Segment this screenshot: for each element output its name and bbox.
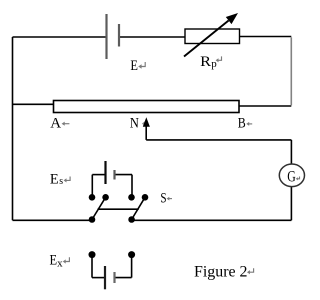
svg-text:A: A	[50, 115, 61, 131]
svg-text:B: B	[238, 116, 246, 132]
svg-text:s: s	[59, 175, 63, 187]
svg-text:S: S	[160, 191, 166, 207]
svg-text:x: x	[57, 257, 63, 269]
svg-text:Figure 2: Figure 2	[194, 264, 248, 281]
svg-text:p: p	[211, 58, 217, 70]
svg-text:E: E	[130, 58, 138, 74]
svg-text:R: R	[200, 54, 211, 70]
svg-text:N: N	[130, 116, 139, 132]
svg-text:E: E	[50, 171, 59, 187]
svg-text:E: E	[50, 252, 58, 268]
svg-text:G: G	[287, 168, 296, 185]
